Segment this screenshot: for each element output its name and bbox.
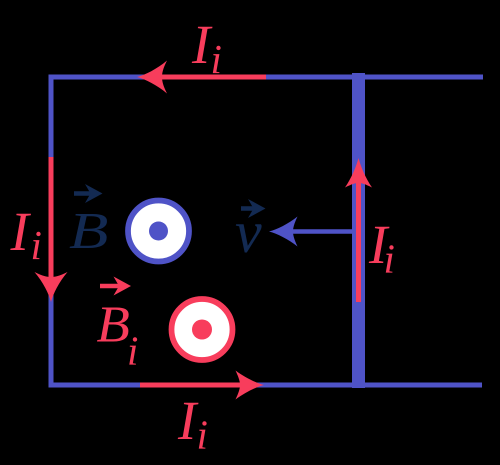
svg-text:i: i — [197, 412, 208, 458]
svg-text:B: B — [97, 295, 130, 354]
svg-text:I: I — [10, 201, 32, 262]
current arrow I_i left (pointing down) — [49, 157, 54, 280]
svg-text:v: v — [235, 199, 262, 265]
svg-text:i: i — [384, 236, 395, 282]
current arrow I_i top (pointing left) — [160, 75, 266, 80]
conductor bar (moving rod) — [352, 73, 365, 388]
svg-text:B: B — [69, 202, 108, 260]
field symbol B (out of page): circle with dot — [128, 201, 189, 262]
current arrow I_i bottom (pointing right) — [140, 383, 242, 388]
svg-text:i: i — [31, 222, 42, 268]
svg-text:i: i — [211, 36, 222, 82]
wire: top rail — [49, 75, 484, 80]
svg-text:i: i — [127, 328, 138, 374]
label B with vector arrow — [74, 191, 93, 196]
label B_i with vector arrow — [100, 284, 122, 289]
wire: velocity vector v shaft — [292, 229, 352, 234]
current arrow I_i on bar (pointing up) — [356, 180, 361, 302]
wire: bottom rail — [49, 383, 483, 388]
wire: left side of loop — [49, 75, 54, 388]
label v with vector arrow — [241, 206, 256, 211]
field symbol B_i (out of page): circle with dot — [172, 299, 233, 360]
arrowhead of velocity vector v — [269, 217, 298, 247]
